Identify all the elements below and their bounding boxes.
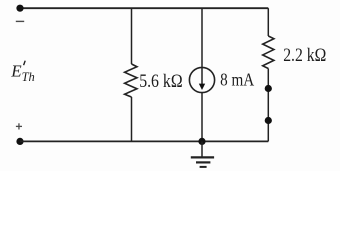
- node: bottom-left terminal: [16, 138, 23, 145]
- resistor 2.2 kOhm zigzag: [263, 36, 274, 69]
- bottom wire: [20, 140, 268, 142]
- arrowhead (current direction down): [199, 84, 205, 90]
- svg-text:2.2 kΩ: 2.2 kΩ: [283, 46, 326, 66]
- top wire: [20, 7, 268, 9]
- ground: [191, 141, 214, 167]
- svg-text:5.6 kΩ: 5.6 kΩ: [139, 72, 182, 92]
- wire: branch 3 bottom lead: [267, 69, 269, 142]
- svg-text:E: E: [10, 62, 22, 81]
- wire: branch 2 bottom lead: [201, 93, 203, 141]
- plus polarity mark: [16, 123, 22, 129]
- node A (upper dot on right branch): [265, 85, 272, 92]
- node: top-left terminal: [16, 5, 23, 12]
- node: junction at ground: [198, 138, 205, 145]
- svg-text:Th: Th: [22, 70, 35, 84]
- resistor 5.6 kOhm zigzag: [125, 64, 137, 97]
- node B (lower dot on right branch): [265, 117, 272, 124]
- label E'Th: [10, 61, 35, 84]
- wire: branch 1 bottom lead: [131, 97, 133, 141]
- wire: branch 3 top lead: [267, 8, 269, 36]
- wire: branch 2 top lead / arrow shaft: [201, 8, 203, 84]
- wire: branch 1 top lead: [131, 8, 133, 64]
- svg-text:8 mA: 8 mA: [220, 70, 254, 90]
- minus polarity mark: [16, 20, 24, 22]
- current source I = 8 mA: [189, 67, 214, 92]
